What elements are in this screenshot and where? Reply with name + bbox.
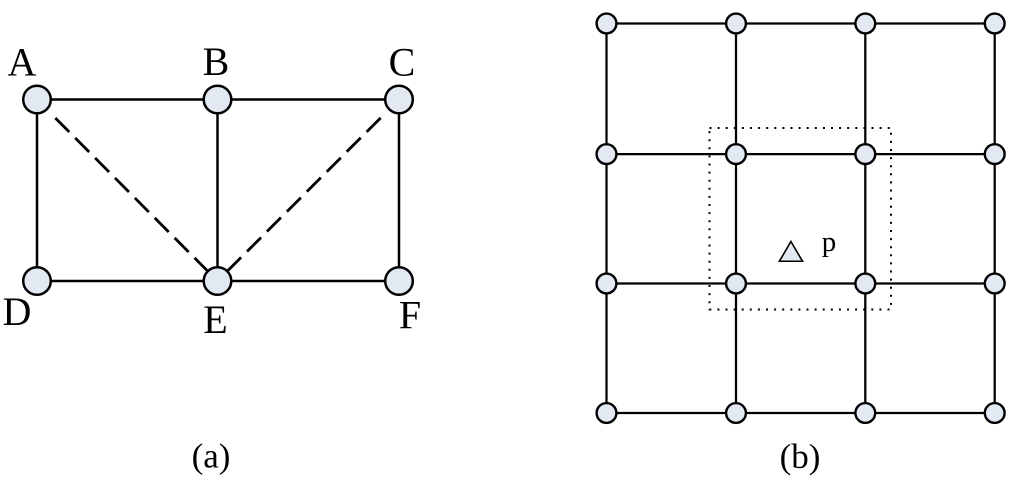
svg-text:(b): (b): [780, 437, 821, 476]
svg-text:C: C: [389, 40, 416, 85]
svg-text:F: F: [399, 293, 421, 338]
svg-text:D: D: [3, 289, 32, 334]
svg-text:A: A: [8, 40, 37, 85]
svg-text:E: E: [203, 297, 227, 342]
svg-text:p: p: [822, 226, 837, 258]
svg-text:B: B: [203, 39, 230, 84]
svg-text:(a): (a): [192, 437, 231, 476]
